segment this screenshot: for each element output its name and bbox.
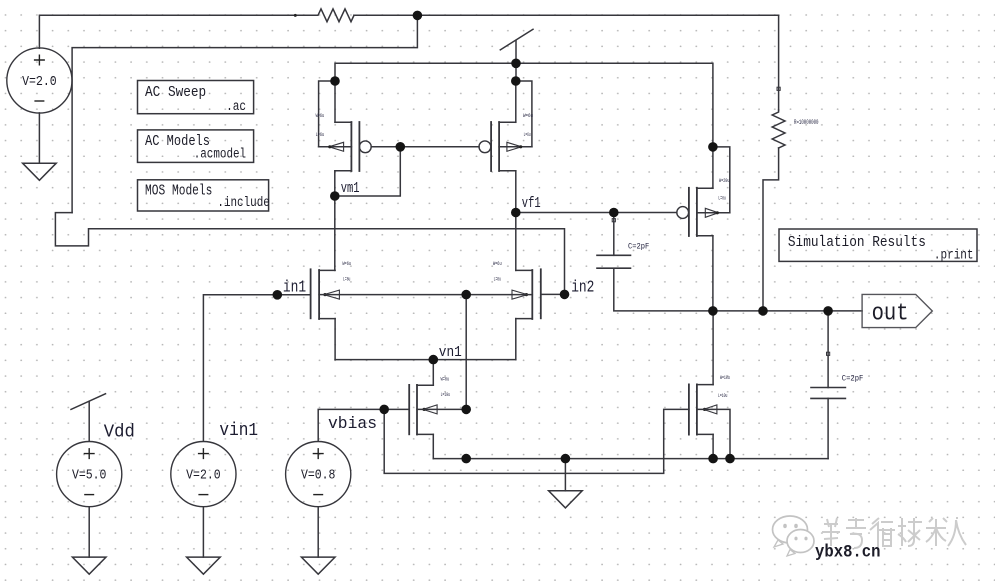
svg-text:.include: .include [217,196,269,211]
node Vdd rail junction [511,59,521,69]
svg-text:in1: in1 [283,279,306,298]
node vbias [379,405,389,415]
pin marker C1 [612,219,615,222]
capacitor C1 plates [597,255,631,268]
wire N3 source down [432,434,434,458]
svg-text:V=5.0: V=5.0 [72,469,107,484]
svg-text:W=6u: W=6u [441,375,450,382]
wire N4 bulk tie [697,409,730,458]
wire M3 source stub [712,147,714,188]
pin marker C2 [827,352,830,355]
power Vdd slash symbol top [500,29,533,50]
wire feedback node down [72,15,417,212]
node out C2 tap [823,306,833,316]
ground G2 [72,557,106,574]
node ground tap [561,454,571,464]
ground G3 [187,557,221,574]
pmos M1 [319,122,372,171]
svg-text:L=10u: L=10u [441,391,450,398]
node M3 source-bulk [708,142,718,152]
svg-text:L=10u: L=10u [718,392,727,399]
svg-text:ybx8.cn: ybx8.cn [815,542,881,562]
wire R2 bottom to out node [763,148,779,311]
node M1 source-bulk [330,76,340,86]
ground G4 [301,557,335,574]
wire vf1 down to N2 drain [515,213,517,271]
watermark chinese text [822,518,966,548]
node in2 [560,290,570,300]
wire V4 to ground [317,507,319,557]
svg-text:W=10u: W=10u [720,374,730,381]
node vm1 [330,191,340,201]
svg-text:in2: in2 [571,279,594,298]
resistor R1 [316,9,354,22]
annotation box AC Models [138,130,254,163]
svg-text:L=6u: L=6u [718,194,726,201]
nmos N3 tail [409,385,437,435]
svg-text:vbias: vbias [328,415,377,434]
svg-text:V=0.8: V=0.8 [301,469,336,484]
svg-text:MOS Models: MOS Models [145,182,212,199]
pin marker R2 [777,87,780,90]
svg-text:vin1: vin1 [219,420,258,441]
power Vdd slash symbol V2 [71,394,106,410]
svg-text:.print: .print [934,248,974,263]
wire gate net to vm1 [335,147,401,196]
node N4 bulk bottom [725,454,735,464]
svg-text:C=2pF: C=2pF [842,374,864,383]
svg-text:W=20u: W=20u [719,177,730,184]
wire V3 to ground [202,507,204,557]
wire diff pair bulk net [319,294,532,296]
wire mirror gate net [371,146,479,148]
wire N2 source down [515,319,517,360]
node out feedback tap [758,306,768,316]
voltage source V3 vin1 [171,442,236,507]
wire node to R2 top [778,15,780,110]
svg-text:vn1: vn1 [439,344,462,361]
svg-text:vm1: vm1 [341,181,360,197]
pin marker R1 left [294,14,297,17]
svg-text:vf1: vf1 [522,196,541,212]
port out pentagon [862,294,932,327]
ground G1 [23,163,57,180]
svg-text:.acmodel: .acmodel [194,148,246,163]
svg-text:V=2.0: V=2.0 [22,75,57,90]
voltage source V2 Vdd [57,442,122,507]
label V3 plus [198,448,209,459]
wire R1 to feedback node [354,14,779,16]
node out at M3-N4 [708,306,718,316]
wire bulk net down to tail [465,295,467,410]
svg-text:.ac: .ac [226,100,246,115]
capacitor C2 plates [811,388,845,399]
nmos N2 [512,269,541,319]
node C1 tap [609,208,619,218]
voltage source V4 vbias [286,442,351,507]
node bottom net junction 1 [461,454,471,464]
capacitor C1 C=2pF top lead [613,213,615,256]
node vf1 [511,208,521,218]
svg-text:Vdd: Vdd [104,422,135,443]
wire Vdd symbol to rail [515,41,517,64]
annotation box MOS Models [138,180,269,211]
nmos N1 [311,269,340,319]
wire N2 gate to in2 [541,293,565,295]
svg-text:C=2pF: C=2pF [628,243,649,252]
label V1 plus [34,55,45,66]
node N3 bulk tie [461,405,471,415]
wire M1 bulk feed [319,81,335,147]
capacitor C2 C=2pF top lead [827,311,829,388]
annotation box AC Sweep [138,81,254,114]
label V4 minus [313,494,323,496]
svg-text:V=2.0: V=2.0 [186,469,221,484]
node diff bulk tap [461,290,471,300]
wire M2 source [515,81,517,122]
svg-text:W=6u: W=6u [342,260,351,267]
wire M2 drain to vf1 [515,171,517,213]
wire N1 source down [334,319,336,360]
svg-text:L=6u: L=6u [494,275,501,282]
wire rail drop to M1 M2 sources [515,63,517,81]
pmos M2 [479,122,532,171]
wire M3 drain to out [712,236,714,311]
wire Vdd rail [335,63,713,147]
svg-text:out: out [872,300,909,327]
wire N4 source down [712,434,714,458]
node feedback junction [413,11,423,21]
nmos N4 output [689,384,717,434]
svg-text:L=6u: L=6u [343,275,350,282]
wire V2 top lead [88,402,90,442]
wire vn1 source net [335,359,516,361]
node in1 [273,290,283,300]
node mirror gate tap [396,142,406,152]
pmos M3 second stage [677,188,730,236]
wire C2 bottom lead [827,398,829,458]
wire top net from V1 to R1 [39,15,316,48]
ground G5 [549,491,583,508]
label V3 minus [198,494,208,496]
svg-text:L=6u: L=6u [316,131,325,138]
wire V2 to ground [88,507,90,557]
wire M2 bulk feed [516,81,532,147]
wire vm1 down to N1 drain [334,196,336,270]
wire staircase to in2 net [55,213,564,295]
wire C1 bottom to out net [614,268,862,311]
wire N3 bulk tie [417,408,466,410]
wire vn1 to N3 drain [432,360,434,386]
watermark wechat icon [773,516,815,556]
voltage source V1 AC [7,48,72,113]
wire ground tap [564,459,566,491]
annotation box Simulation Results [779,229,977,261]
label V2 plus [84,448,95,459]
wire vbias to N4 gate [384,409,689,473]
label V4 plus [313,448,324,459]
wire vbias net [318,409,409,441]
svg-text:AC Sweep: AC Sweep [145,84,206,101]
svg-text:W=6u: W=6u [523,112,533,119]
wire M1 drain to vm1 [334,171,336,196]
wire M1 source [334,81,336,122]
wire vf1 net to M3 gate [516,212,677,214]
node vn1 [429,355,439,365]
svg-text:Simulation Results: Simulation Results [788,234,926,251]
node N4 source [708,454,718,464]
wire bottom source net [433,458,828,460]
svg-text:R=10000000: R=10000000 [794,119,819,126]
svg-text:L=6u: L=6u [524,131,531,138]
svg-text:W=6u: W=6u [493,260,502,267]
wire N4 drain to out [712,311,714,385]
svg-text:W=6u: W=6u [316,112,325,119]
wire in1 from V3 to N1 gate [203,295,310,441]
wire V1 to ground [38,113,40,163]
resistor R2 R=10000000 [772,110,785,148]
wire M3 bulk feed [713,147,730,213]
label V2 minus [84,494,94,496]
node M2 source-bulk [511,76,521,86]
label V1 minus [34,100,44,102]
